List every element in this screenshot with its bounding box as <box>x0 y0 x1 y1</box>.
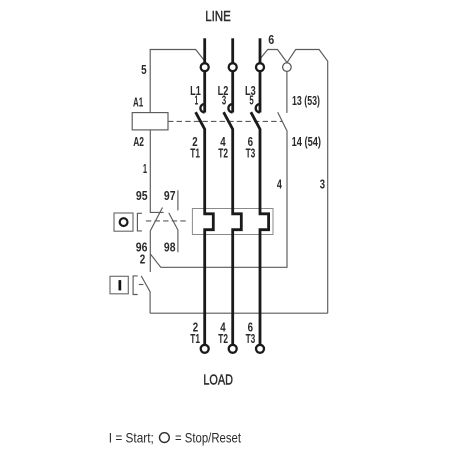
pole L2 fixed contact hook <box>228 104 232 112</box>
pole L3 segment to contact <box>259 72 262 113</box>
pole L3 fixed contact hook <box>256 104 260 112</box>
pole L1 terminal circle <box>201 63 209 71</box>
svg-text:T2: T2 <box>218 145 228 160</box>
start button I bar <box>119 280 122 290</box>
svg-text:3: 3 <box>222 93 226 108</box>
NC contact 95-96 blade <box>150 208 162 254</box>
pole L3 terminal circle <box>256 63 264 71</box>
stop/reset button box <box>114 213 133 231</box>
svg-text:T1: T1 <box>190 145 200 160</box>
stop button ring symbol <box>120 218 128 226</box>
svg-text:= Stop/Reset: = Stop/Reset <box>175 430 241 446</box>
wire hump from L3 to aux terminal <box>260 50 287 63</box>
pole L1 segment to contact <box>203 72 206 113</box>
start button box <box>110 276 128 294</box>
svg-text:T1: T1 <box>190 331 200 346</box>
start button dashed link <box>139 284 146 286</box>
svg-text:LOAD: LOAD <box>203 373 233 389</box>
coil A1-A2 box <box>132 113 168 130</box>
svg-text:T2: T2 <box>218 331 228 346</box>
wire 1 from A2 to 95 with NC seat <box>150 130 163 212</box>
pole L2 terminal circle <box>229 63 237 71</box>
NO contact 97-98 blade <box>169 213 178 252</box>
pole L3 blade and lower run with heater element <box>251 112 269 345</box>
pole L1 fixed contact hook <box>200 104 204 112</box>
svg-text:I = Start;: I = Start; <box>109 430 154 446</box>
pole L2 blade and lower run with heater element <box>224 112 242 345</box>
svg-text:14 (54): 14 (54) <box>292 134 321 149</box>
svg-text:5: 5 <box>249 93 253 108</box>
svg-text:2: 2 <box>140 252 146 267</box>
svg-text:1: 1 <box>195 93 199 108</box>
legend stop circle symbol <box>160 433 170 443</box>
start button bracket <box>133 276 138 295</box>
dashed actuator line coil-to-poles <box>168 120 283 122</box>
svg-text:A1: A1 <box>133 95 143 110</box>
svg-text:A2: A2 <box>133 134 144 149</box>
svg-text:13 (53): 13 (53) <box>292 93 320 108</box>
bottom rail wire <box>150 312 328 314</box>
svg-text:T3: T3 <box>246 331 256 346</box>
svg-text:1: 1 <box>143 161 147 176</box>
svg-text:97: 97 <box>164 188 176 203</box>
wire 14-4 from aux blade down and left to node 2 <box>150 112 287 267</box>
pole L2 bottom terminal circle T2 <box>229 345 237 353</box>
start contact blade <box>141 276 150 313</box>
NO contact 97 stub <box>177 190 179 210</box>
svg-text:98: 98 <box>164 239 176 254</box>
svg-text:3: 3 <box>320 176 325 191</box>
wire 5 from L1 to coil A1 <box>150 50 204 113</box>
svg-text:4: 4 <box>277 176 283 191</box>
svg-text:5: 5 <box>141 62 147 77</box>
svg-text:95: 95 <box>136 188 148 203</box>
overload relay heater box <box>192 209 273 235</box>
dashed actuator line stop-button-to-95/97 <box>146 220 188 222</box>
wire 13 from aux terminal <box>286 71 288 113</box>
pole L3 top segment <box>259 38 262 63</box>
stop button bracket <box>137 213 142 231</box>
pole L2 top segment <box>231 38 234 63</box>
wire 3 right side up to aux terminal <box>287 50 328 314</box>
pole L3 bottom terminal circle T3 <box>256 345 264 353</box>
pole L2 segment to contact <box>231 72 234 113</box>
aux terminal circle <box>283 63 292 72</box>
pole L1 bottom terminal circle T1 <box>201 345 209 353</box>
pole L1 top segment <box>203 38 206 63</box>
svg-text:6: 6 <box>268 32 274 47</box>
wire 2 node to start contact stub <box>149 254 151 272</box>
svg-text:T3: T3 <box>246 145 256 160</box>
svg-text:LINE: LINE <box>205 9 231 25</box>
pole L1 blade and lower run with heater element <box>196 112 214 345</box>
